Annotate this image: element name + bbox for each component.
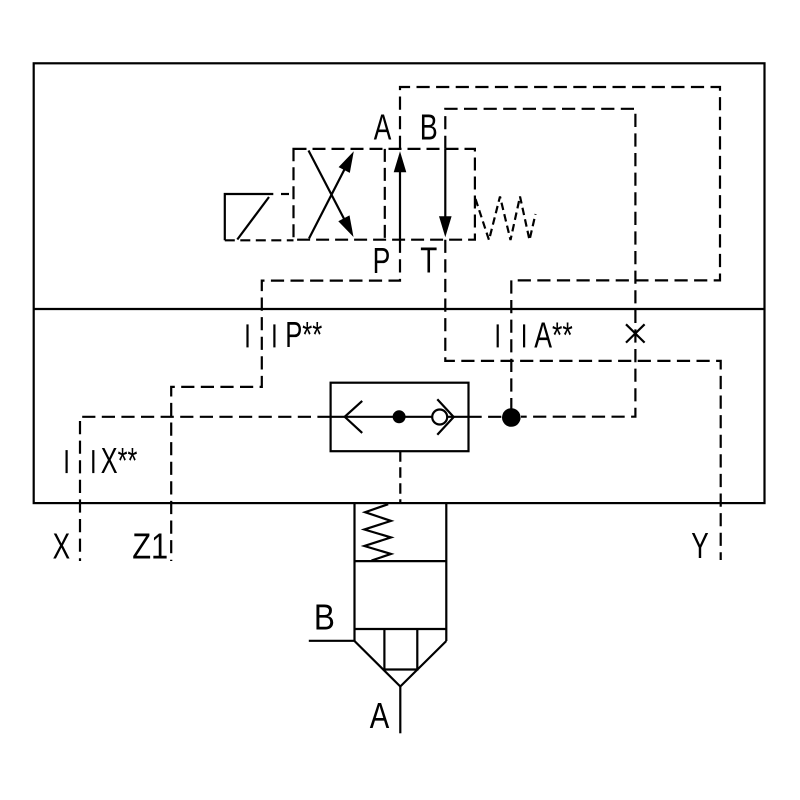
node X** (orifice bars + label) bbox=[65, 450, 67, 473]
check valve ball (circle) bbox=[432, 410, 447, 425]
pilot valve V1 centre position divider bbox=[384, 149, 386, 240]
svg-text:X: X bbox=[53, 525, 71, 566]
wire: P pilot line from valve P port down to Z1 bbox=[171, 240, 400, 561]
svg-text:A: A bbox=[370, 695, 390, 736]
solenoid actuator of pilot valve V1 bbox=[225, 194, 273, 240]
solenoid baseline wire bbox=[225, 239, 294, 241]
node P** (orifice bars + label) bbox=[246, 324, 248, 347]
poppet pilot land (inner) bbox=[383, 629, 418, 671]
main poppet spring (zigzag) bbox=[364, 504, 391, 560]
wire: A port line bbox=[399, 687, 401, 734]
shuttle valve body bbox=[331, 383, 469, 452]
svg-text:A**: A** bbox=[534, 314, 573, 355]
check valve seat bbox=[437, 399, 453, 434]
pilot valve V1 crossed-flow arrow (down-right) bbox=[309, 151, 348, 225]
cartridge spring chamber line bbox=[355, 560, 447, 562]
svg-text:Y: Y bbox=[691, 525, 709, 566]
wire: T drain line from valve T port to Y bbox=[445, 240, 720, 560]
svg-text:B: B bbox=[420, 107, 438, 148]
manifold block outline bbox=[34, 63, 765, 503]
junction node (A-line / B-line / shuttle) bbox=[502, 408, 521, 427]
wire: B port line bbox=[309, 640, 355, 642]
svg-text:Z1: Z1 bbox=[132, 526, 168, 567]
return spring of pilot valve V1 (dashed zigzag) bbox=[476, 197, 536, 241]
main poppet cartridge body sides bbox=[355, 503, 447, 641]
block divider line bbox=[34, 308, 765, 310]
pilot valve V1 B-to-T flow arrow bbox=[444, 149, 446, 220]
svg-text:T: T bbox=[420, 240, 437, 281]
shuttle valve centre line bbox=[331, 416, 469, 418]
shuttle valve left seat bbox=[345, 401, 363, 433]
svg-text:P: P bbox=[373, 240, 391, 281]
wire: shuttle valve output down to main poppet spring chamber bbox=[399, 451, 401, 503]
node A** (orifice bars + label) bbox=[497, 324, 499, 347]
wire: pilot A-line from valve top via right side down to shuttle junction bbox=[400, 87, 720, 413]
pilot valve V1 P-to-A flow arrow bbox=[399, 168, 401, 240]
main poppet cone bbox=[355, 641, 447, 687]
wire: pilot B-line from valve top to plug line bbox=[445, 109, 635, 417]
wire: shuttle valve to junction bbox=[469, 416, 503, 418]
plug (closed) symbol on B pilot line bbox=[626, 324, 645, 342]
svg-text:P**: P** bbox=[285, 314, 322, 355]
svg-text:B: B bbox=[314, 596, 335, 637]
svg-text:A: A bbox=[374, 107, 392, 148]
wire: X pilot line from shuttle valve to X port bbox=[80, 417, 331, 561]
shuttle valve ball (filled) bbox=[393, 410, 406, 423]
cartridge land line bbox=[355, 628, 447, 630]
pilot valve V1 crossed-flow arrow (up-right) bbox=[309, 165, 347, 239]
svg-text:X**: X** bbox=[101, 440, 138, 481]
pilot valve V1 outline (4/2 directional valve, dashed body) bbox=[294, 149, 475, 240]
